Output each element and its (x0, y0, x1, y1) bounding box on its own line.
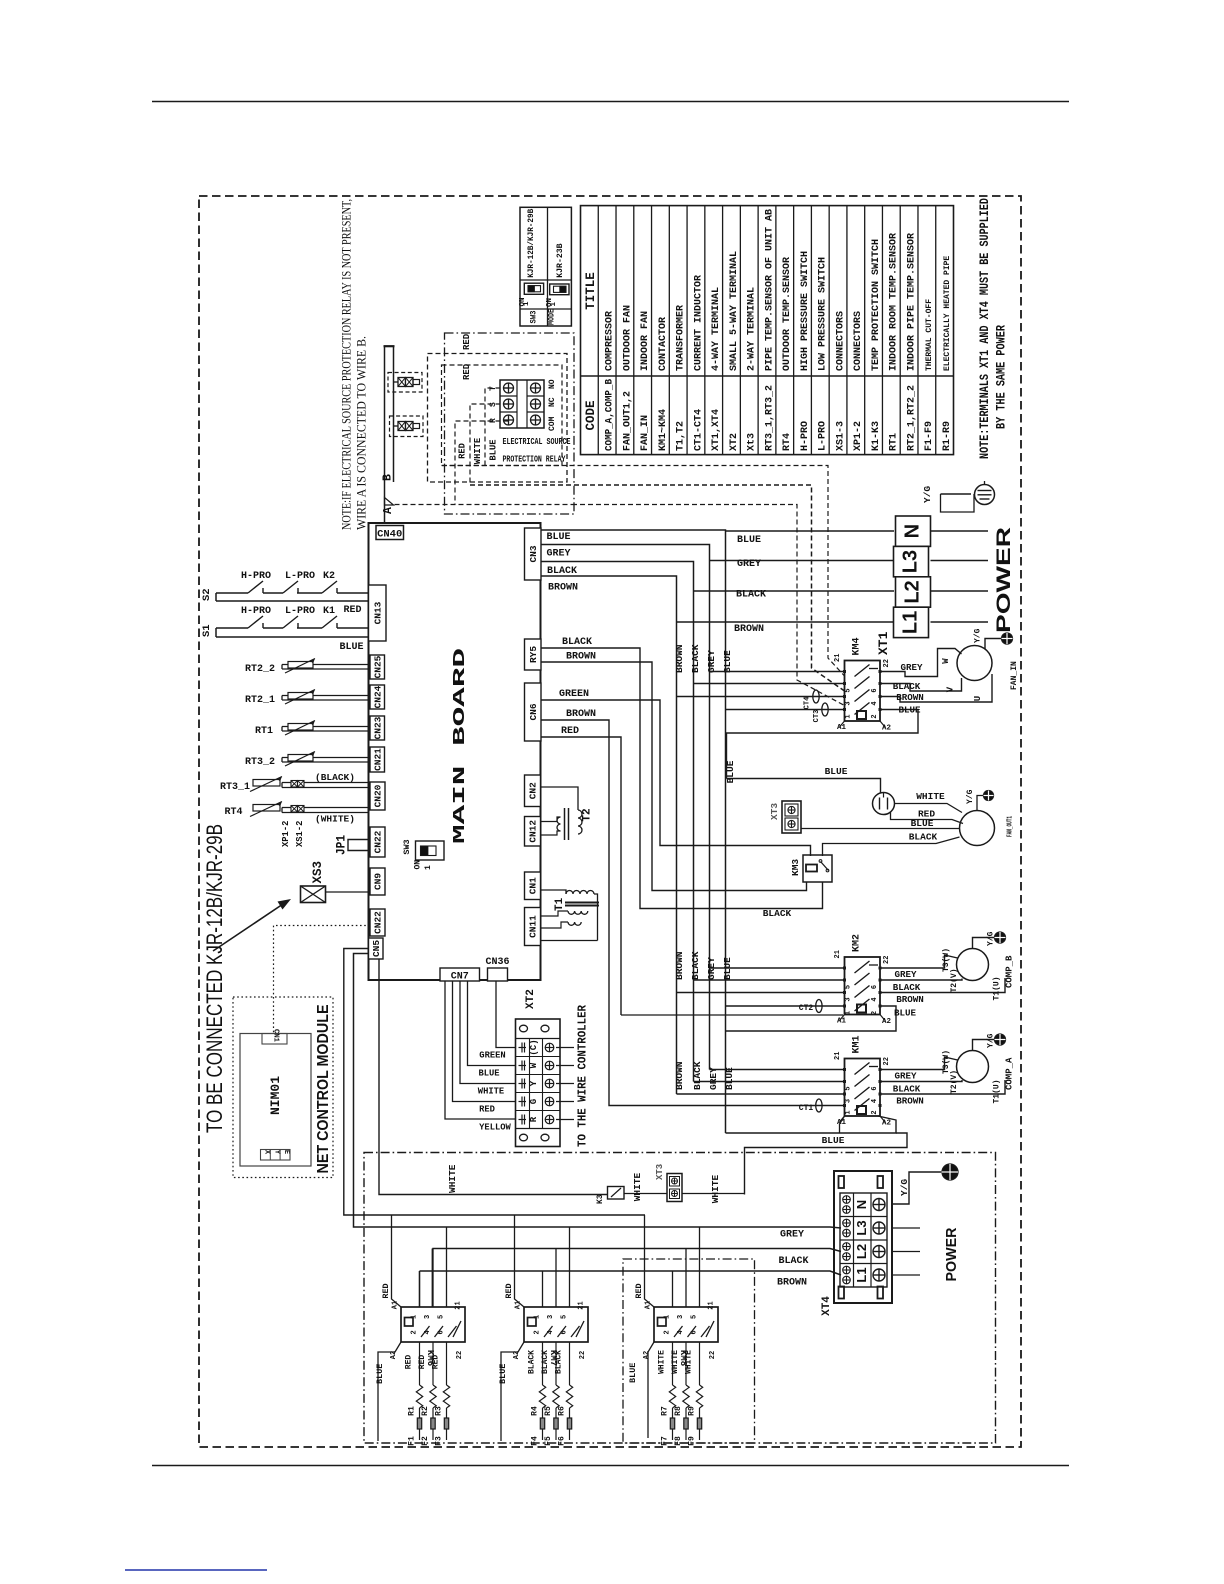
svg-text:BROWN: BROWN (674, 951, 685, 980)
svg-text:BLACK: BLACK (692, 1061, 703, 1090)
svg-text:5: 5 (845, 985, 853, 989)
svg-text:RED: RED (405, 1355, 414, 1370)
svg-text:MAIN BOARD: MAIN BOARD (451, 648, 470, 844)
svg-text:L-PRO: L-PRO (818, 421, 829, 451)
svg-text:BLUE: BLUE (478, 1069, 499, 1079)
svg-text:INDOOR ROOM TEMP.SENSOR: INDOOR ROOM TEMP.SENSOR (889, 233, 900, 371)
svg-text:R3: R3 (435, 1406, 444, 1416)
switch icon SW3 (524, 283, 543, 294)
svg-text:E: E (282, 1150, 290, 1154)
svg-text:ON: ON (414, 860, 423, 870)
footer blue mark (125, 1569, 267, 1571)
svg-text:OUTDOOR TEMP.SENSOR: OUTDOOR TEMP.SENSOR (782, 257, 793, 371)
svg-text:Y: Y (529, 1080, 539, 1086)
thermistor RT2_1 (282, 695, 369, 697)
svg-text:2: 2 (871, 1011, 879, 1015)
svg-text:RT3_2: RT3_2 (245, 757, 275, 768)
relay area dashed box inner (442, 365, 563, 466)
connector CN25 (370, 655, 385, 679)
svg-text:BROWN: BROWN (896, 1096, 924, 1107)
svg-text:4: 4 (424, 1330, 432, 1334)
svg-text:A: A (382, 507, 395, 514)
svg-text:CN1: CN1 (528, 877, 539, 894)
svg-text:TITLE: TITLE (584, 272, 598, 310)
svg-text:2: 2 (534, 1330, 542, 1334)
arrow to XS3 (213, 902, 286, 951)
KM2 feed wires (726, 1005, 844, 1007)
svg-text:BROWN: BROWN (548, 583, 578, 594)
svg-text:Y/G: Y/G (899, 1179, 910, 1196)
svg-text:H-PRO: H-PRO (800, 421, 811, 451)
svg-text:HIGH PRESSURE SWITCH: HIGH PRESSURE SWITCH (800, 251, 811, 371)
svg-text:5: 5 (845, 1086, 853, 1090)
terminal XT1 (896, 516, 931, 546)
svg-text:CT1-CT4: CT1-CT4 (693, 409, 704, 451)
svg-text:FAN_IN: FAN_IN (1010, 661, 1019, 690)
svg-text:GREY: GREY (546, 549, 570, 560)
XT4 ground (892, 1172, 941, 1204)
thermal protector (873, 793, 895, 815)
KM8 dash-dot box (623, 1259, 755, 1443)
svg-text:RED: RED (458, 443, 468, 459)
switch chain S2 (H-PRO L-PRO K2) (216, 592, 248, 594)
svg-text:GREY: GREY (900, 662, 923, 673)
svg-text:RT4: RT4 (224, 807, 242, 818)
heater dash-dot box (364, 1153, 996, 1444)
terminals X Y E (261, 1150, 291, 1161)
svg-text:F1: F1 (408, 1436, 417, 1446)
svg-text:22: 22 (579, 1351, 587, 1359)
transformer T2 (541, 787, 579, 810)
svg-text:L3: L3 (900, 550, 922, 573)
svg-text:WHITE: WHITE (473, 438, 483, 464)
terminal XT3 (heater) (667, 1174, 682, 1202)
svg-text:L-PRO: L-PRO (285, 571, 315, 582)
svg-text:K1-K3: K1-K3 (871, 421, 882, 451)
svg-text:K1: K1 (323, 606, 335, 617)
heater resistor R1 (419, 1342, 421, 1385)
svg-text:BROWN: BROWN (566, 709, 596, 720)
connector CN21 (370, 747, 385, 772)
jumper JP1 (348, 840, 370, 851)
svg-text:6: 6 (561, 1330, 569, 1334)
svg-text:4: 4 (871, 1099, 879, 1103)
coil feed RED KM7 (515, 1215, 525, 1307)
svg-text:4: 4 (871, 701, 879, 705)
svg-text:XT2: XT2 (729, 433, 740, 451)
svg-text:CN20: CN20 (373, 784, 384, 807)
switch chain S1 (H-PRO L-PRO K1) (216, 627, 248, 629)
svg-text:BLUE: BLUE (825, 766, 848, 777)
svg-text:CT3: CT3 (813, 710, 821, 723)
connector CN2 (525, 775, 541, 807)
svg-text:BROWN: BROWN (674, 644, 685, 673)
current transformer CT1 (816, 1099, 822, 1112)
outer dashed border (199, 196, 1021, 1447)
connector CN23 (370, 716, 385, 740)
svg-text:(BLACK): (BLACK) (315, 772, 355, 783)
svg-text:1: 1 (534, 1315, 542, 1319)
svg-text:CN7: CN7 (451, 972, 469, 983)
thermistor RT2_2 (282, 664, 369, 666)
svg-text:BROWN: BROWN (674, 1061, 685, 1090)
wire BLACK to motor (823, 837, 960, 856)
svg-text:RT4: RT4 (782, 433, 793, 451)
svg-text:RT3_1,RT3_2: RT3_1,RT3_2 (764, 385, 775, 451)
contactor KM4 (845, 661, 881, 722)
svg-text:L2: L2 (902, 580, 924, 603)
switch K3 (608, 1187, 625, 1200)
svg-text:CN3: CN3 (528, 545, 539, 562)
svg-text:NET CONTROL MODULE: NET CONTROL MODULE (315, 1005, 332, 1174)
svg-text:CN23: CN23 (372, 716, 383, 739)
wire BLACK RY5 to KM3 (541, 648, 823, 909)
svg-text:K2: K2 (323, 571, 335, 582)
svg-text:KM3: KM3 (790, 859, 801, 876)
svg-text:BLACK: BLACK (555, 1350, 564, 1374)
svg-text:BLACK: BLACK (893, 1084, 921, 1095)
svg-text:RT1: RT1 (889, 433, 900, 451)
svg-text:COMPRESSOR: COMPRESSOR (605, 311, 616, 371)
svg-text:INDOOR PIPE TEMP.SENSOR: INDOOR PIPE TEMP.SENSOR (906, 233, 917, 371)
svg-text:OUTDOOR FAN: OUTDOOR FAN (622, 305, 633, 371)
contactor KM2 (845, 957, 881, 1015)
svg-text:CONNECTORS: CONNECTORS (853, 311, 864, 371)
electrical source protection relay (500, 380, 544, 428)
thermistor RT3_1 with XP/XS connectors (282, 782, 369, 784)
svg-text:W: W (529, 1062, 539, 1068)
svg-text:NO: NO (548, 379, 557, 389)
svg-text:R4: R4 (531, 1406, 540, 1416)
svg-text:BLACK: BLACK (893, 681, 921, 692)
contactor KM8 (654, 1307, 718, 1342)
svg-text:R9: R9 (688, 1406, 697, 1416)
dotted wire CN22 to NIM01 (274, 926, 371, 1034)
inline connector pair lower (390, 416, 424, 437)
svg-text:T1(U): T1(U) (993, 1079, 1002, 1103)
svg-text:YELLOW: YELLOW (479, 1123, 511, 1133)
svg-text:BLUE: BLUE (489, 439, 499, 460)
svg-text:WHITE: WHITE (478, 1087, 504, 1097)
bus taps KM6 (419, 1271, 421, 1307)
current transformer CT4 (813, 690, 819, 703)
heater resistor R8 (685, 1342, 687, 1385)
heater resistor R3 (446, 1342, 448, 1385)
svg-text:WHITE: WHITE (658, 1350, 667, 1374)
XT4 right stubs (892, 1227, 920, 1229)
terminal XT3 (782, 801, 801, 833)
wire BROWN RY5 to KM3 (541, 662, 807, 891)
wire XS3 to CN9 (326, 891, 371, 893)
svg-text:F8: F8 (674, 1436, 683, 1446)
svg-text:KM1~KM4: KM1~KM4 (658, 409, 669, 451)
connector CN1 (525, 872, 541, 900)
svg-text:WHITE: WHITE (447, 1164, 458, 1193)
svg-text:WHITE: WHITE (710, 1174, 721, 1203)
CN7/CN36 wires to XT2 (445, 981, 516, 1119)
heater resistor R5 (555, 1342, 557, 1385)
svg-text:2: 2 (871, 1110, 879, 1114)
svg-text:WHITE: WHITE (685, 1350, 694, 1374)
svg-text:COMP_B: COMP_B (1005, 955, 1015, 988)
heater resistor R6 (569, 1342, 571, 1385)
svg-text:WHITE: WHITE (916, 791, 945, 802)
heater resistor R4 (542, 1342, 544, 1385)
svg-text:XT1: XT1 (876, 631, 891, 655)
svg-text:CN40: CN40 (377, 529, 402, 541)
svg-text:F1-F9: F1-F9 (924, 421, 935, 451)
wire BLUE xt3 to motor (801, 828, 960, 830)
svg-text:FAN_IN: FAN_IN (640, 415, 651, 451)
svg-text:1: 1 (845, 1110, 853, 1114)
svg-text:TO BE CONNECTED KJR-12B/KJR-29: TO BE CONNECTED KJR-12B/KJR-29B (202, 824, 227, 1133)
svg-text:GREY: GREY (706, 650, 717, 673)
svg-text:RED: RED (504, 1283, 514, 1298)
svg-text:Y/G: Y/G (974, 628, 983, 643)
svg-text:RED: RED (634, 1283, 644, 1298)
branch wires to XT1 (726, 530, 895, 532)
main board (369, 523, 541, 980)
svg-text:BROWN: BROWN (896, 994, 924, 1005)
svg-text:INDOOR FAN: INDOOR FAN (640, 311, 651, 371)
svg-text:5: 5 (845, 688, 853, 692)
relay area dashed box outer (428, 354, 568, 483)
svg-text:A2: A2 (882, 725, 892, 733)
svg-text:6: 6 (691, 1330, 699, 1334)
svg-text:BLUE: BLUE (724, 1067, 735, 1090)
svg-text:BLUE: BLUE (737, 535, 761, 546)
svg-text:F6: F6 (558, 1436, 567, 1446)
svg-text:4-WAY TERMINAL: 4-WAY TERMINAL (711, 287, 722, 371)
svg-text:XT1,XT4: XT1,XT4 (711, 409, 722, 451)
svg-text:KJR-12B/KJR-29B: KJR-12B/KJR-29B (526, 209, 536, 278)
transformer T1 (541, 890, 567, 894)
svg-text:22: 22 (709, 1351, 717, 1359)
svg-text:COMP_A,COMP_B: COMP_A,COMP_B (605, 379, 616, 451)
svg-text:POWER: POWER (994, 527, 1015, 633)
svg-text:CN12: CN12 (528, 820, 539, 843)
svg-text:BROWN: BROWN (777, 1278, 807, 1289)
wire BLACK from CN3 (541, 562, 694, 1082)
svg-text:XT3: XT3 (655, 1164, 665, 1180)
contactor KM7 (524, 1307, 588, 1342)
svg-text:RED: RED (381, 1283, 391, 1298)
thermal fuse F1 (419, 1408, 421, 1418)
svg-text:XS3: XS3 (311, 861, 325, 884)
svg-text:1: 1 (664, 1315, 672, 1319)
svg-text:2-WAY TERMINAL: 2-WAY TERMINAL (747, 287, 758, 371)
svg-text:(WHITE): (WHITE) (315, 814, 355, 825)
current transformer CT3 (822, 703, 828, 716)
svg-text:T1: T1 (554, 897, 566, 911)
svg-text:POWER: POWER (943, 1227, 960, 1281)
svg-text:N: N (902, 524, 924, 538)
svg-text:CN13: CN13 (372, 601, 383, 624)
wire BROWN from CN3 (541, 576, 677, 1094)
svg-text:Y/G: Y/G (966, 789, 975, 804)
svg-text:F4: F4 (531, 1436, 540, 1446)
svg-text:21: 21 (834, 654, 842, 662)
svg-text:NIM01: NIM01 (268, 1076, 283, 1115)
svg-text:GREEN: GREEN (559, 689, 589, 700)
connector CN9 (370, 868, 385, 895)
relay area dash-dot box (445, 333, 575, 514)
svg-text:3: 3 (677, 1315, 685, 1319)
svg-text:21: 21 (455, 1301, 463, 1309)
svg-text:RT1: RT1 (255, 726, 273, 737)
wire BLUE from CN3 (541, 530, 726, 1133)
svg-text:CN1: CN1 (272, 1029, 280, 1043)
svg-text:CODE: CODE (584, 400, 598, 430)
thermal fuse F4 (542, 1408, 544, 1418)
svg-text:6: 6 (871, 688, 879, 692)
svg-text:6: 6 (438, 1330, 446, 1334)
power buses BLACK BROWN (431, 1249, 433, 1308)
heater resistor R7 (672, 1342, 674, 1385)
svg-text:LOW PRESSURE SWITCH: LOW PRESSURE SWITCH (818, 257, 829, 371)
svg-text:T2: T2 (582, 808, 594, 821)
svg-text:BROWN: BROWN (566, 652, 596, 663)
svg-text:1: 1 (523, 301, 531, 306)
svg-text:GREY: GREY (737, 559, 761, 570)
wire GREEN to KM3 (541, 700, 811, 856)
svg-text:BLUE: BLUE (911, 818, 934, 829)
svg-text:RED: RED (462, 333, 472, 350)
svg-text:BLACK: BLACK (736, 590, 766, 601)
connector CN11 (525, 908, 541, 946)
svg-text:RT2_2: RT2_2 (245, 664, 275, 675)
svg-text:R: R (529, 1116, 539, 1122)
KM1 feed wires (710, 1069, 844, 1071)
svg-text:L3: L3 (854, 1220, 869, 1235)
svg-text:A1: A1 (837, 724, 847, 732)
svg-text:R6: R6 (558, 1406, 567, 1416)
svg-text:XT2: XT2 (525, 989, 537, 1009)
svg-text:BY THE SAME POWER: BY THE SAME POWER (994, 325, 1009, 429)
svg-text:4: 4 (677, 1330, 685, 1334)
svg-text:BLUE: BLUE (722, 650, 733, 673)
svg-text:CT1: CT1 (799, 1104, 814, 1113)
svg-text:THERMAL CUT-OFF: THERMAL CUT-OFF (925, 299, 934, 371)
wire B / wire A verticals (384, 347, 386, 523)
svg-text:4: 4 (547, 1330, 555, 1334)
wire CN6 BROWN to KM1 pin1 (541, 720, 843, 1106)
svg-text:1: 1 (550, 302, 558, 307)
svg-text:BLACK: BLACK (763, 908, 792, 919)
wire WHITE (895, 804, 963, 813)
thermal fuse F3 (446, 1408, 448, 1418)
motor FAN_OUT1 (960, 811, 995, 846)
svg-text:5: 5 (438, 1315, 446, 1319)
svg-text:2: 2 (411, 1330, 419, 1334)
svg-text:KM2: KM2 (852, 934, 863, 952)
svg-text:CN2: CN2 (528, 782, 539, 799)
svg-text:4: 4 (871, 997, 879, 1001)
svg-text:XT3: XT3 (769, 803, 780, 820)
net control module dotted box (233, 997, 333, 1178)
thermistor RT4 with XP/XS connectors (282, 807, 369, 809)
svg-text:JP1: JP1 (334, 835, 349, 855)
svg-text:XP1-2: XP1-2 (281, 821, 291, 847)
XT1 power stubs (931, 530, 989, 532)
svg-text:RT3_1: RT3_1 (220, 782, 250, 793)
svg-text:COM: COM (548, 416, 557, 431)
svg-text:21: 21 (708, 1301, 716, 1309)
module NIM01 (240, 1034, 311, 1167)
svg-text:A2: A2 (643, 1351, 651, 1359)
heater resistor R2 (432, 1342, 434, 1385)
svg-text:L2: L2 (854, 1244, 869, 1259)
svg-text:RY5: RY5 (528, 646, 539, 663)
svg-text:NOTE:IF ELECTRICAL SOURCE PROT: NOTE:IF ELECTRICAL SOURCE PROTECTION REL… (339, 199, 354, 530)
svg-text:CN22: CN22 (373, 911, 384, 934)
KM1 A2 return (726, 1116, 897, 1133)
svg-text:GREY: GREY (708, 1067, 719, 1090)
svg-text:3: 3 (845, 1099, 853, 1103)
KM2 coil feed (621, 1014, 843, 1016)
svg-text:N: N (854, 1200, 869, 1209)
svg-text:WHITE: WHITE (632, 1172, 643, 1201)
svg-text:SW3: SW3 (529, 311, 539, 324)
connector RY5 (525, 639, 542, 670)
svg-text:WHITE: WHITE (671, 1350, 680, 1374)
svg-text:CN9: CN9 (373, 873, 384, 890)
svg-text:CN36: CN36 (485, 957, 509, 968)
contactor KM6 (401, 1307, 465, 1342)
svg-text:ELECTRICALLY HEATED PIPE: ELECTRICALLY HEATED PIPE (943, 256, 952, 371)
connector CN5 (369, 938, 384, 959)
svg-text:CN5: CN5 (371, 940, 382, 957)
svg-text:BLACK: BLACK (690, 951, 701, 980)
svg-text:RED: RED (462, 363, 472, 380)
terminal XT4 (834, 1171, 892, 1303)
thermal fuse F9 (699, 1408, 701, 1418)
svg-text:BLACK: BLACK (909, 832, 938, 843)
svg-text:CN6: CN6 (528, 703, 539, 720)
svg-text:BLUE: BLUE (725, 760, 736, 783)
svg-text:COMP_A: COMP_A (1005, 1057, 1015, 1090)
svg-text:SMALL 5-WAY TERMINAL: SMALL 5-WAY TERMINAL (729, 251, 740, 371)
connector CN6 (525, 683, 542, 741)
svg-text:BLUE: BLUE (375, 1364, 385, 1384)
svg-text:T3(W): T3(W) (942, 948, 951, 972)
svg-text:RED: RED (343, 605, 361, 616)
svg-text:XP1-2: XP1-2 (853, 421, 864, 451)
svg-text:Y/G: Y/G (987, 931, 996, 946)
svg-text:Y/G: Y/G (987, 1033, 996, 1048)
svg-text:FAN_OUT1: FAN_OUT1 (1007, 816, 1015, 837)
ground Y/G top (941, 493, 972, 495)
KM1 A1 hook (840, 1116, 845, 1133)
connector CN40 (376, 526, 404, 540)
svg-text:CONNECTORS: CONNECTORS (835, 311, 846, 371)
svg-text:ELECTRICAL SOURCE: ELECTRICAL SOURCE (503, 436, 571, 447)
svg-text:B: B (382, 474, 395, 481)
svg-text:GREEN: GREEN (479, 1051, 505, 1061)
svg-text:T1(U): T1(U) (993, 976, 1002, 1000)
svg-text:BLUE: BLUE (894, 1008, 917, 1019)
SW3/MODE config box (520, 207, 571, 326)
connector CN20 (370, 782, 385, 810)
coil feed RED KM6 (392, 1215, 402, 1307)
svg-text:21: 21 (834, 1052, 842, 1060)
svg-text:TEMP PROTECTION SWITCH: TEMP PROTECTION SWITCH (871, 239, 882, 371)
svg-text:FAN_OUT1,2: FAN_OUT1,2 (622, 391, 633, 451)
svg-text:BLUE: BLUE (628, 1363, 638, 1383)
svg-text:BLACK: BLACK (893, 982, 921, 993)
dashed wires relay to KM4 (485, 388, 509, 466)
svg-text:3: 3 (845, 997, 853, 1001)
